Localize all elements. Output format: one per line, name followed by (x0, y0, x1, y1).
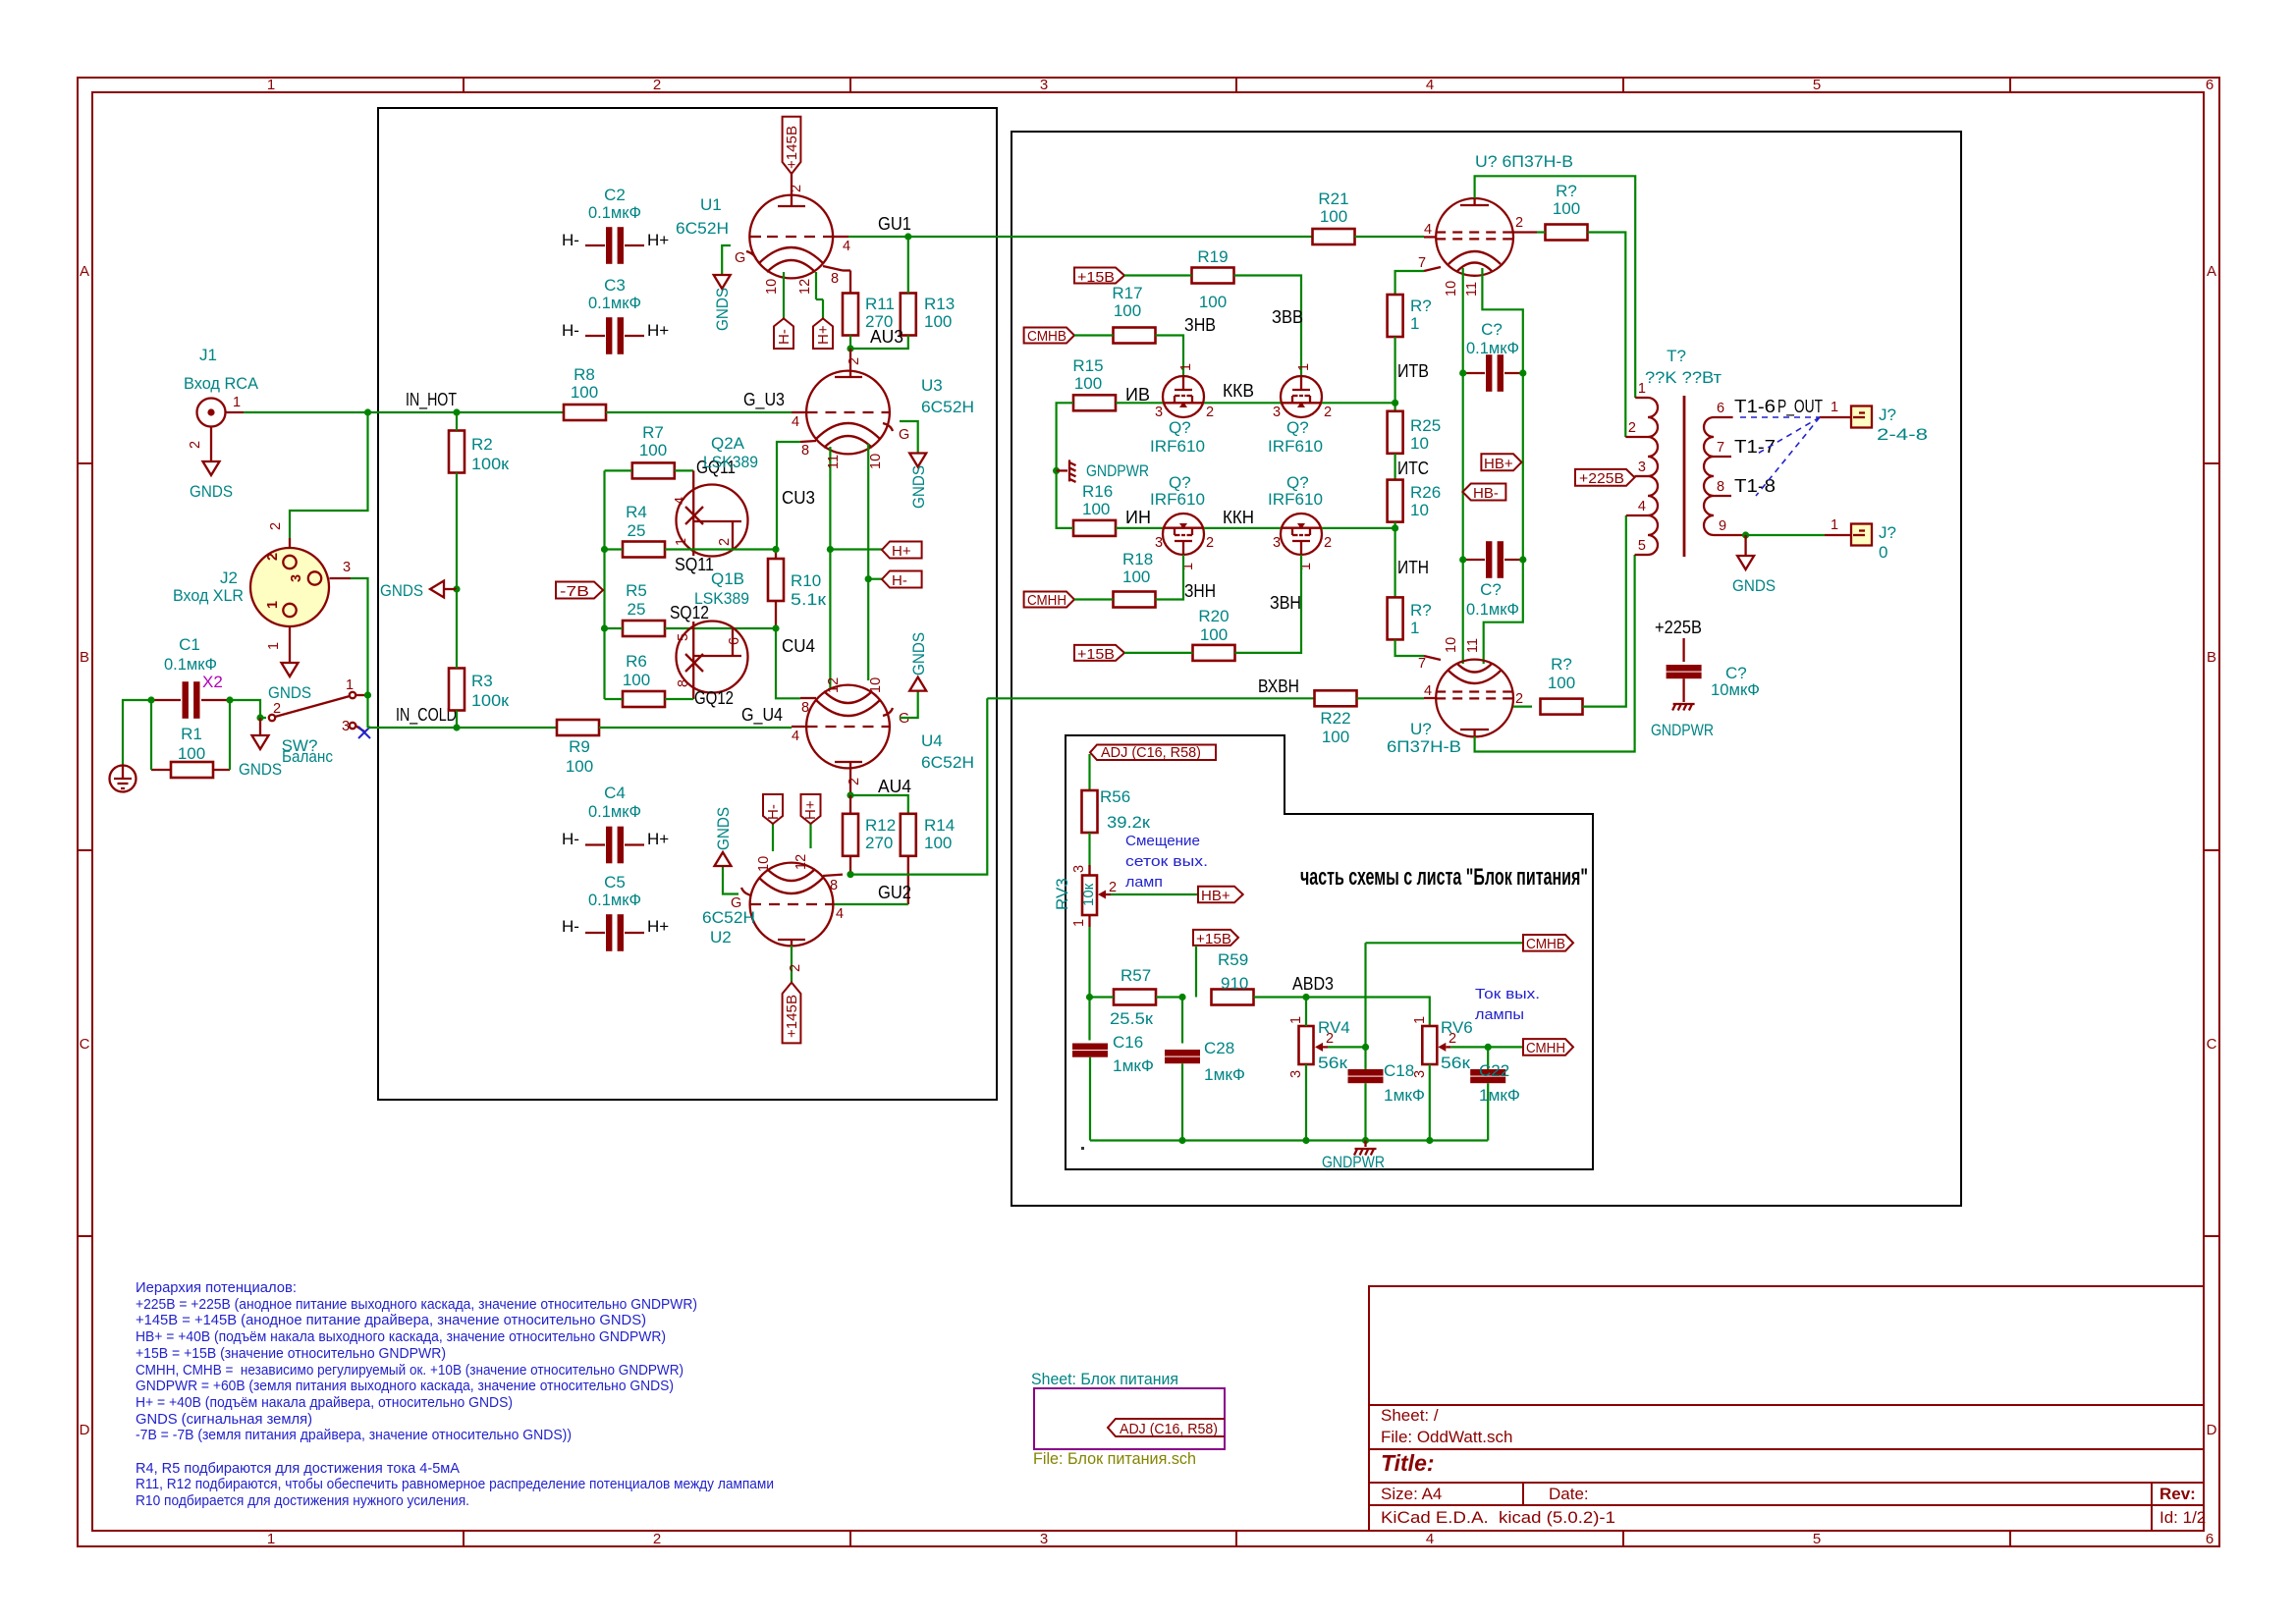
svg-text:+145B: +145B (784, 995, 800, 1038)
svg-text:4: 4 (843, 239, 850, 254)
svg-text:0.1мкФ: 0.1мкФ (588, 294, 641, 312)
transformer pin 8 (1714, 495, 1731, 497)
svg-text:B: B (80, 649, 89, 666)
svg-text:Size: A4: Size: A4 (1381, 1485, 1442, 1503)
svg-text:1мкФ: 1мкФ (1113, 1056, 1154, 1075)
power flag +145B (top, for U1) (783, 117, 804, 196)
svg-text:5: 5 (1813, 1531, 1821, 1547)
svg-text:H-: H- (562, 321, 579, 340)
wire R? to transformer pin 4 (1583, 515, 1626, 707)
svg-text:910: 910 (1221, 974, 1248, 993)
svg-text:25: 25 (628, 521, 646, 540)
svg-text:ламп: ламп (1125, 874, 1163, 891)
ground GNDS below J1 (203, 461, 220, 475)
svg-text:1: 1 (1410, 314, 1419, 333)
U? upper plate wire to transformer pin 1 (1475, 176, 1636, 398)
resistor R22 (1315, 690, 1425, 746)
svg-text:GNDPWR = +60В (земля питания в: GNDPWR = +60В (земля питания выходного к… (136, 1378, 674, 1394)
svg-text:0.1мкФ: 0.1мкФ (588, 203, 641, 222)
svg-text:ЗНВ: ЗНВ (1184, 315, 1216, 335)
svg-text:11: 11 (826, 455, 842, 469)
title block (1369, 1286, 2204, 1531)
svg-text:11: 11 (1464, 282, 1480, 297)
svg-text:10: 10 (868, 677, 884, 693)
wire RV6 wiper to C22 node and СМНН (1450, 1046, 1523, 1048)
svg-text:GNDS: GNDS (909, 465, 928, 509)
transistor Q? IRF610 (lower left) (1163, 514, 1204, 555)
svg-text:H+: H+ (892, 543, 911, 560)
svg-text:6C52H: 6C52H (921, 753, 974, 772)
switch SW? Баланс (269, 677, 368, 766)
svg-text:J?: J? (1879, 523, 1896, 542)
svg-text:3: 3 (1040, 77, 1048, 93)
wire H- flag connection (868, 578, 882, 580)
wire ИТН (1394, 522, 1395, 598)
output section box (1011, 132, 1961, 1206)
power flag +15B (sub sheet) (1193, 930, 1238, 947)
svg-text:8: 8 (801, 700, 809, 716)
svg-text:R14: R14 (924, 816, 955, 835)
svg-text:1: 1 (674, 538, 689, 546)
wire lower drain to rail (1322, 527, 1395, 529)
svg-text:100: 100 (1553, 199, 1580, 218)
svg-text:5: 5 (1813, 77, 1821, 93)
global label H+ (882, 542, 922, 561)
svg-text:6: 6 (727, 637, 742, 645)
transformer secondary winding (1704, 417, 1714, 535)
wire R17 to ЗНВ gate (1156, 336, 1184, 377)
driver section box (378, 108, 997, 1100)
wire RV3 pin1 down (1088, 927, 1090, 1041)
svg-text:2: 2 (717, 538, 733, 546)
svg-text:U1: U1 (700, 195, 722, 214)
svg-text:RV4: RV4 (1318, 1018, 1350, 1037)
svg-text:H-: H- (892, 572, 907, 589)
svg-text:R59: R59 (1218, 950, 1248, 969)
svg-text:R10 подбирается для достижения: R10 подбирается для достижения нужного у… (136, 1492, 469, 1509)
svg-text:2: 2 (1206, 405, 1214, 420)
svg-text:??K ??Вт: ??K ??Вт (1645, 368, 1722, 387)
svg-text:GNDS (сигнальная земля): GNDS (сигнальная земля) (136, 1411, 312, 1428)
svg-text:3: 3 (1273, 535, 1281, 551)
J2 pin 1 wire to ground (289, 627, 291, 664)
svg-text:+225B: +225B (1579, 470, 1624, 487)
svg-text:H+: H+ (647, 231, 669, 249)
svg-text:2: 2 (273, 701, 281, 717)
svg-text:ККН: ККН (1223, 508, 1254, 527)
svg-text:LSK389: LSK389 (703, 453, 758, 471)
svg-text:4: 4 (792, 414, 799, 430)
svg-text:CU3: CU3 (782, 488, 815, 508)
svg-text:8: 8 (831, 271, 839, 287)
wire heater column verticals (1462, 373, 1464, 560)
svg-text:56к: 56к (1318, 1054, 1348, 1072)
svg-text:+15B: +15B (1077, 269, 1115, 286)
svg-text:R5: R5 (626, 581, 647, 600)
svg-text:R13: R13 (924, 295, 955, 313)
svg-text:2: 2 (653, 1531, 661, 1547)
svg-text:C2: C2 (604, 186, 626, 204)
wire ИВ row (1116, 402, 1163, 404)
svg-text:SQ11: SQ11 (675, 555, 714, 574)
U2 plate pin 2 (791, 946, 793, 982)
svg-text:7: 7 (1717, 440, 1724, 456)
wire BXBH (987, 697, 1314, 699)
svg-text:4: 4 (1638, 499, 1646, 514)
svg-text:100: 100 (924, 312, 952, 331)
capacitor C28 (1165, 994, 1245, 1144)
resistor R20 (1124, 607, 1235, 661)
svg-text:IRF610: IRF610 (1268, 490, 1323, 509)
svg-text:лампы: лампы (1475, 1006, 1524, 1023)
power symbol GNDPWR (at R15/R16) (1057, 469, 1067, 471)
wire rail bottom corner to lower tube pin 7 (1395, 639, 1424, 656)
wire from transformer pin 9 (1746, 534, 1825, 536)
svg-text:H+: H+ (647, 830, 669, 848)
power symbol GNDPWR (sub sheet) (1364, 1141, 1366, 1148)
svg-text:Sheet: Блок питания: Sheet: Блок питания (1031, 1370, 1178, 1388)
frame row labels right (2207, 263, 2217, 1438)
svg-text:4: 4 (673, 497, 688, 505)
resistor R14 (901, 814, 955, 904)
J2 pin 3 wire (330, 577, 352, 579)
global label H+ (U2 heater) (801, 794, 821, 824)
svg-text:1мкФ: 1мкФ (1204, 1065, 1245, 1084)
resistor R1 (151, 725, 230, 778)
global label СМНВ (left upper) (1024, 328, 1074, 346)
svg-text:10к: 10к (1080, 883, 1097, 906)
svg-text:0.1мкФ: 0.1мкФ (588, 802, 641, 821)
U2 grid G wire to ground (741, 888, 751, 895)
svg-text:1: 1 (1410, 619, 1419, 637)
connector J2 XLR (173, 538, 329, 626)
vacuum tube U3 6C52H (806, 371, 974, 455)
capacitor C4 (562, 784, 669, 863)
svg-text:1: 1 (266, 642, 282, 650)
svg-text:D: D (2207, 1422, 2217, 1438)
svg-text:ЗНН: ЗНН (1184, 581, 1216, 601)
svg-text:GNDPWR: GNDPWR (1322, 1153, 1385, 1171)
svg-text:1мкФ: 1мкФ (1479, 1086, 1520, 1105)
wire RV4 wiper to C18 node (1328, 1046, 1366, 1048)
U1 cathode pin 8 (823, 266, 843, 271)
svg-text:25: 25 (628, 600, 646, 619)
U? upper pin 7 (1424, 267, 1441, 271)
U1 pin 4 (plate out right) wire GU1 (833, 236, 848, 238)
wire R19 to ЗВВ gate (1234, 276, 1302, 377)
resistor R25 (1388, 411, 1442, 454)
svg-text:C5: C5 (604, 873, 626, 892)
svg-text:3: 3 (1155, 405, 1163, 420)
svg-text:СМНВ: СМНВ (1526, 936, 1565, 952)
svg-text:R57: R57 (1121, 966, 1151, 985)
svg-text:2: 2 (1324, 405, 1332, 420)
svg-text:25.5к: 25.5к (1110, 1009, 1154, 1028)
U? lower plate wire to transformer pin 5 (1475, 555, 1635, 752)
svg-text:ЗВН: ЗВН (1270, 593, 1301, 613)
svg-text:R?: R? (1410, 297, 1432, 315)
svg-text:HB+: HB+ (1484, 456, 1513, 472)
svg-text:сеток вых.: сеток вых. (1125, 853, 1208, 870)
svg-text:+145B: +145B (784, 126, 800, 169)
U? upper pin 4 (1424, 236, 1436, 238)
svg-text:100к: 100к (471, 691, 510, 710)
svg-text:Q?: Q? (1169, 418, 1191, 437)
svg-text:3: 3 (342, 719, 350, 734)
svg-text:T?: T? (1667, 347, 1686, 365)
svg-text:C28: C28 (1204, 1039, 1234, 1057)
svg-text:2: 2 (268, 522, 284, 530)
svg-text:GNDS: GNDS (190, 482, 233, 501)
svg-text:12: 12 (797, 279, 813, 295)
svg-text:R12: R12 (865, 816, 896, 835)
resistor R15 (1072, 356, 1116, 410)
wire ИТС (1394, 454, 1395, 480)
svg-text:R21: R21 (1318, 189, 1348, 208)
svg-text:3: 3 (1040, 1531, 1048, 1547)
resistor R26 (1388, 480, 1442, 522)
svg-text:СМНН: СМНН (1027, 592, 1066, 609)
svg-text:R1: R1 (181, 725, 202, 743)
transformer pin 2 (1625, 436, 1648, 438)
svg-text:6C52H: 6C52H (921, 398, 974, 416)
svg-text:3: 3 (289, 574, 304, 582)
svg-text:+15В = +15В (значение относите: +15В = +15В (значение относительно GNDPW… (136, 1345, 446, 1362)
frame column ticks bottom (464, 1531, 2010, 1546)
resistor R2 (449, 412, 510, 473)
wire R20 to ЗВН gate (1235, 555, 1302, 653)
svg-text:4: 4 (836, 906, 844, 922)
vacuum tube U? 6П37Н-В (lower) (1387, 660, 1513, 756)
capacitor C18 (1348, 1061, 1426, 1144)
global label -7B (556, 582, 603, 601)
svg-text:R19: R19 (1197, 247, 1228, 266)
svg-text:R10: R10 (791, 571, 821, 590)
svg-text:3: 3 (1273, 405, 1281, 420)
svg-text:ADJ (C16, R58): ADJ (C16, R58) (1120, 1421, 1218, 1437)
svg-text:3: 3 (1155, 535, 1163, 551)
svg-text:C18: C18 (1384, 1061, 1414, 1080)
capacitor C? 0.1мкФ (upper) (1459, 320, 1526, 392)
svg-text:R8: R8 (574, 365, 595, 384)
resistor R4 (605, 503, 777, 558)
svg-text:100: 100 (1074, 374, 1102, 393)
vacuum tube U1 6C52H (676, 195, 833, 279)
svg-text:P_OUT: P_OUT (1777, 397, 1823, 417)
svg-text:+15B: +15B (1196, 931, 1231, 947)
power flag +15B (upper) (1074, 268, 1124, 287)
svg-text:4: 4 (1424, 683, 1432, 699)
svg-text:ИТВ: ИТВ (1397, 361, 1429, 381)
svg-text:2: 2 (1515, 691, 1523, 707)
svg-text:Title:: Title: (1381, 1450, 1435, 1476)
small dot artifact (1081, 1147, 1084, 1150)
resistor R10 (768, 550, 827, 628)
svg-text:Иерархия потенциалов:: Иерархия потенциалов: (136, 1279, 297, 1296)
svg-text:C4: C4 (604, 784, 626, 802)
resistor R8 (564, 365, 606, 420)
wire CU4 down to U4 pin8 (776, 628, 800, 698)
svg-text:56к: 56к (1441, 1054, 1471, 1072)
wire R18 to ЗНН gate (1156, 555, 1184, 600)
svg-text:G: G (899, 427, 909, 443)
svg-text:ЗВВ: ЗВВ (1272, 307, 1303, 327)
resistor R3 (449, 589, 510, 728)
svg-text:3: 3 (1412, 1070, 1428, 1078)
transformer pin 7 (1714, 456, 1731, 458)
svg-text:R4, R5 подбираются для достиже: R4, R5 подбираются для достижения тока 4… (136, 1460, 460, 1477)
svg-text:J?: J? (1879, 406, 1896, 424)
svg-text:4: 4 (792, 729, 799, 744)
svg-text:U? 6П37Н-В: U? 6П37Н-В (1475, 152, 1573, 171)
svg-text:2-4-8: 2-4-8 (1877, 425, 1928, 444)
svg-text:R2: R2 (471, 435, 493, 454)
sheet pin ADJ (C16, R58) (1108, 1419, 1225, 1436)
resistor R21 (1313, 189, 1355, 244)
svg-text:3: 3 (343, 560, 351, 575)
U4 cathode pin 8 (800, 697, 816, 699)
svg-text:100: 100 (566, 757, 593, 776)
wire R2 to gnd node (456, 473, 458, 590)
svg-text:ИВ: ИВ (1125, 385, 1150, 405)
resistor R56 (1082, 787, 1151, 833)
svg-text:1: 1 (1412, 1016, 1428, 1024)
svg-text:D: D (80, 1422, 90, 1438)
svg-text:C3: C3 (604, 276, 626, 295)
transistor Q2A LSK389 (673, 434, 758, 557)
U1 heater pins 10 and 12 (783, 272, 785, 318)
svg-text:RV3: RV3 (1053, 878, 1071, 910)
svg-text:2: 2 (1109, 880, 1117, 895)
frame row ticks left (78, 463, 92, 1236)
svg-text:2: 2 (847, 357, 862, 365)
svg-text:U2: U2 (710, 928, 732, 947)
svg-text:ИТН: ИТН (1397, 558, 1429, 577)
svg-text:C?: C? (1480, 580, 1502, 599)
transformer pin 6 (1714, 416, 1733, 418)
svg-text:H-: H- (765, 804, 782, 820)
svg-text:5: 5 (1638, 538, 1646, 554)
svg-text:1: 1 (267, 77, 275, 93)
transistor Q? IRF610 (upper left) (1163, 376, 1204, 417)
potentiometer RV4 (1288, 998, 1350, 1141)
svg-text:IRF610: IRF610 (1268, 437, 1323, 456)
svg-text:0.1мкФ: 0.1мкФ (164, 655, 217, 674)
svg-text:100: 100 (1114, 301, 1141, 320)
power flag +145B (bottom, for U2) (783, 983, 801, 1044)
transformer primary winding (1648, 398, 1658, 555)
svg-text:+15B: +15B (1077, 646, 1115, 663)
wire RV3 wiper to HB+ (1111, 893, 1198, 895)
svg-text:R15: R15 (1072, 356, 1103, 375)
resistor R? 100 (upper plate/screen) (1537, 182, 1588, 241)
global label H- (882, 571, 922, 590)
global label H- (U1 heater) (774, 318, 793, 349)
svg-text:10: 10 (1444, 637, 1459, 653)
svg-text:СМНН: СМНН (1526, 1040, 1565, 1056)
svg-text:часть схемы с листа "Блок пита: часть схемы с листа "Блок питания" (1300, 864, 1588, 891)
svg-text:Sheet: /: Sheet: / (1381, 1406, 1439, 1425)
U3 pin 4 (792, 411, 807, 413)
svg-text:1: 1 (1071, 919, 1087, 927)
hierarchical label ADJ (C16, R58) (1090, 744, 1216, 761)
svg-text:3: 3 (1638, 460, 1646, 475)
svg-text:GU1: GU1 (878, 214, 911, 234)
wire upper drain to rail (1322, 402, 1395, 404)
wire R? to transformer pin 2 (1588, 233, 1626, 438)
U1 grid pin G wire to ground (746, 251, 756, 259)
transformer pin 4 (1626, 514, 1648, 516)
svg-text:2: 2 (847, 778, 862, 785)
svg-text:100: 100 (1082, 500, 1110, 518)
wire G_U3 (606, 411, 792, 413)
U3 cathode pin 8 wire (800, 441, 816, 442)
svg-text:+225В = +225В (анодное питание: +225В = +225В (анодное питание выходного… (136, 1296, 697, 1313)
transformer T? (1625, 347, 1745, 557)
svg-text:0.1мкФ: 0.1мкФ (1466, 600, 1519, 619)
svg-text:G: G (731, 895, 741, 911)
wire ИН row (1116, 527, 1163, 529)
resistor R17 (1074, 284, 1156, 344)
wire ККВ row (1204, 402, 1281, 404)
svg-text:CU4: CU4 (782, 636, 815, 656)
svg-text:3: 3 (1071, 865, 1087, 873)
svg-text:ADJ (C16, R58): ADJ (C16, R58) (1101, 744, 1201, 761)
resistor R19 (1124, 247, 1234, 311)
svg-text:ABD3: ABD3 (1292, 974, 1334, 994)
svg-text:Date:: Date: (1549, 1485, 1589, 1503)
wires heater columns to lower tube (1462, 560, 1464, 664)
svg-text:10мкФ: 10мкФ (1711, 680, 1760, 699)
svg-text:8: 8 (1717, 479, 1724, 495)
node junctions C1 (147, 696, 154, 703)
svg-text:R11, R12 подбираются, чтобы об: R11, R12 подбираются, чтобы обеспечить р… (136, 1476, 774, 1492)
global label СМНН (left lower) (1024, 592, 1074, 610)
svg-text:4: 4 (1426, 1531, 1434, 1547)
transformer pin 1 (1635, 397, 1648, 399)
svg-text:2: 2 (265, 553, 281, 561)
U? lower pin 7 (1424, 656, 1441, 660)
wire C1/R1 right (229, 700, 231, 770)
wire ABD3 to RV6 top (1306, 998, 1430, 1027)
vacuum tube U2 6C52H (702, 863, 834, 947)
U4 plate pin 2 to AU4 (849, 768, 851, 795)
svg-text:C22: C22 (1479, 1061, 1509, 1080)
svg-text:R18: R18 (1122, 550, 1153, 568)
svg-text:R26: R26 (1410, 483, 1441, 502)
svg-text:3: 3 (1288, 1070, 1304, 1078)
svg-text:Q2A: Q2A (711, 434, 745, 453)
svg-text:1мкФ: 1мкФ (1384, 1086, 1425, 1105)
svg-text:-7B: -7B (560, 583, 589, 600)
wire R15 left to GNDPWR rail (1057, 403, 1073, 529)
global label HB- (1462, 484, 1505, 503)
svg-text:C1: C1 (179, 635, 200, 654)
svg-text:R?: R? (1556, 182, 1577, 200)
svg-text:Q1B: Q1B (711, 569, 744, 588)
capacitor C22 (1470, 1047, 1520, 1140)
svg-text:R6: R6 (626, 652, 647, 671)
wire junction to switch (230, 700, 266, 718)
svg-text:ИН: ИН (1125, 508, 1151, 527)
U3 grid G wire to ground (883, 423, 893, 431)
U4 grid G wire to ground (883, 708, 893, 716)
wire R21 to upper output tube pin 4 (1355, 236, 1425, 238)
svg-text:4: 4 (1424, 222, 1432, 238)
svg-text:GNDS: GNDS (268, 683, 311, 702)
resistor R57 (1090, 966, 1183, 1028)
resistor R11 (843, 271, 895, 336)
